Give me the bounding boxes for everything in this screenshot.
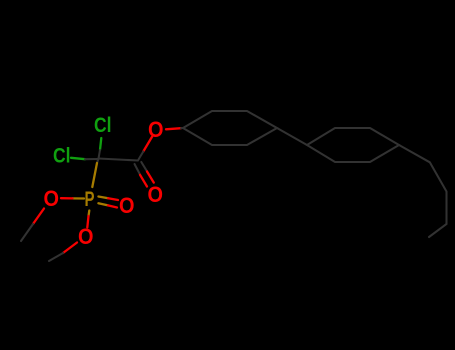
svg-text:O: O bbox=[148, 182, 164, 207]
bond C-P bbox=[97, 159, 99, 164]
double bond C=O line2 bbox=[141, 162, 147, 171]
bond O-CH3 left methyl bbox=[33, 209, 44, 225]
double bond P=O lower bbox=[98, 203, 108, 205]
bond P-O left bbox=[73, 197, 85, 199]
bond O-CH3 bottom methyl bbox=[63, 243, 77, 254]
svg-text:Cl: Cl bbox=[94, 113, 112, 137]
svg-text:O: O bbox=[119, 193, 135, 218]
double bond C=O line1 bbox=[135, 164, 141, 175]
bond P-O bottom bbox=[87, 211, 90, 217]
cyclohexane ring A bbox=[183, 111, 277, 145]
double bond P=O upper bbox=[98, 197, 108, 199]
bond ringA-ringB bbox=[277, 128, 307, 145]
bond C-Cl1 bbox=[100, 138, 101, 150]
bond O-C carbonyl bbox=[143, 137, 152, 152]
bond C-C carbonyl bbox=[99, 159, 139, 161]
svg-text:Cl: Cl bbox=[53, 144, 71, 168]
svg-text:O: O bbox=[44, 186, 60, 211]
bond O-ring bbox=[166, 128, 181, 129]
pentyl chain bbox=[399, 145, 447, 237]
svg-text:P: P bbox=[85, 187, 95, 211]
cyclohexane ring B bbox=[307, 128, 399, 162]
bond C-Cl2 bbox=[71, 158, 85, 159]
svg-text:O: O bbox=[78, 224, 94, 249]
